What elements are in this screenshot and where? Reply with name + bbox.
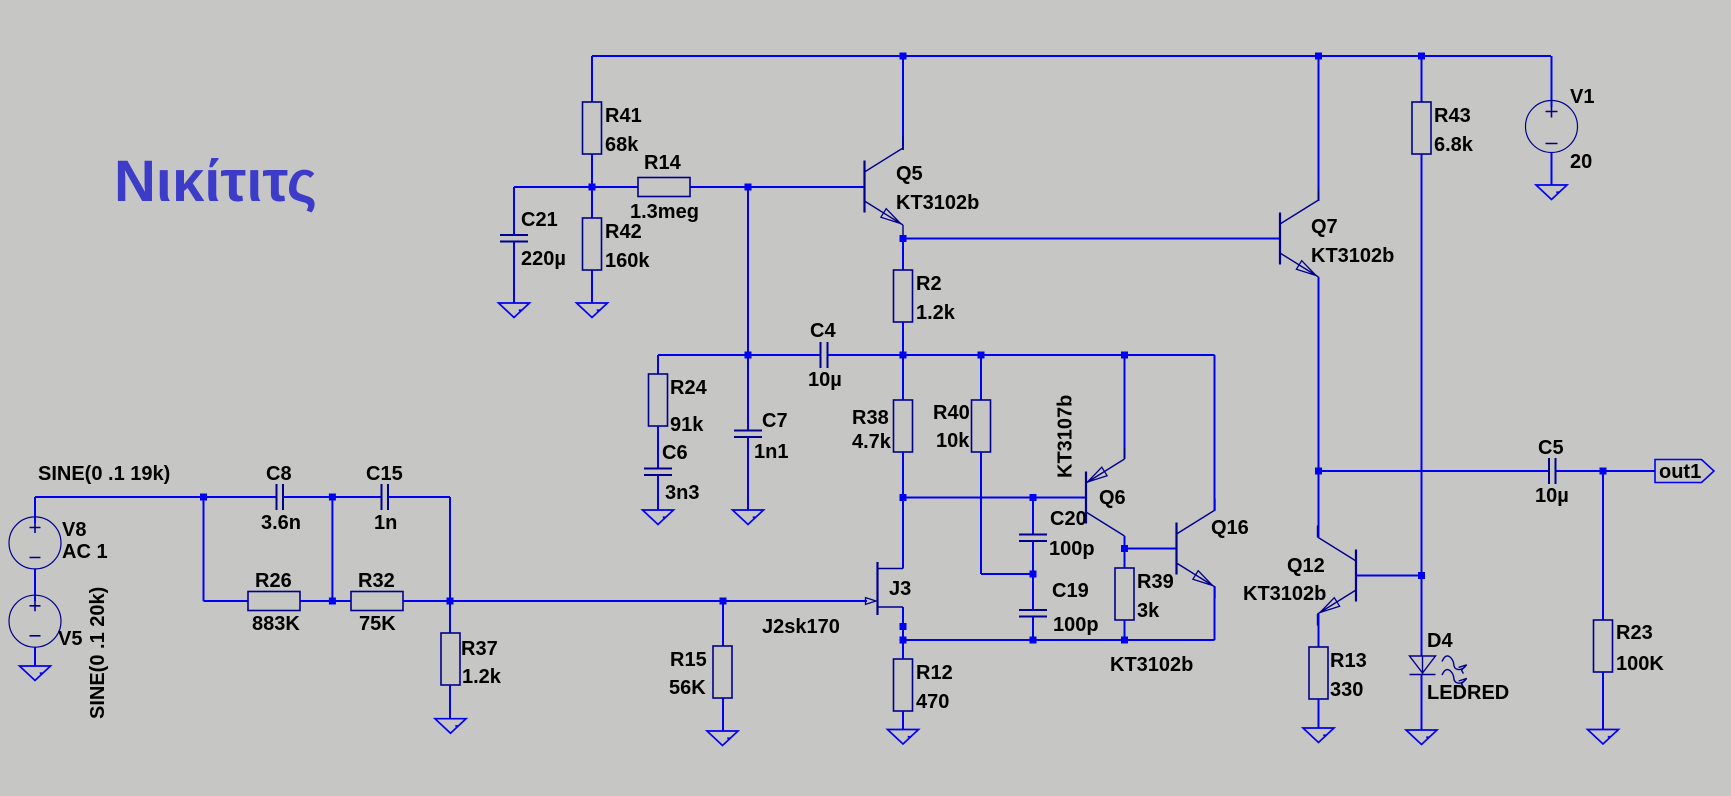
diode D4 [1410,656,1467,687]
wire [1318,471,1320,537]
resistor R14 [638,178,690,197]
svg-text:160k: 160k [605,250,650,272]
svg-text:220µ: 220µ [521,248,566,270]
junction [720,598,727,605]
svg-text:R12: R12 [916,662,953,684]
wire [902,239,904,271]
wire [902,711,904,730]
capacitor C7 [734,431,762,438]
svg-text:R24: R24 [670,377,708,399]
wire [1421,56,1423,102]
transistor Q12 [1318,526,1357,626]
junction [900,235,907,242]
ground [707,731,738,746]
svg-text:91k: 91k [670,414,704,436]
svg-text:KT3107b: KT3107b [1055,395,1077,478]
junction [1030,637,1037,644]
wire [657,475,659,510]
resistor R13 [1309,647,1328,699]
junction [900,53,907,60]
wire [1556,470,1656,472]
wire [283,496,382,498]
wire [1551,56,1553,107]
svg-text:1n: 1n [374,512,397,534]
junction [1315,53,1322,60]
svg-text:100K: 100K [1616,653,1664,675]
wire [592,55,1551,57]
wire [34,569,36,601]
wire [1319,470,1550,472]
capacitor C8 [277,484,284,510]
junction [900,494,907,501]
wire [1214,586,1216,640]
svg-text:Q12: Q12 [1287,555,1325,577]
svg-text:SINE(0 .1 20k): SINE(0 .1 20k) [87,587,109,719]
svg-text:Q16: Q16 [1211,517,1249,539]
wire [747,437,749,510]
svg-text:100p: 100p [1053,614,1099,636]
ground [435,719,466,734]
ground [20,666,51,681]
transistor Q16 [1177,499,1216,599]
resistor R24 [649,374,668,426]
svg-text:C21: C21 [521,209,558,231]
svg-text:R13: R13 [1330,650,1367,672]
svg-text:AC 1: AC 1 [62,541,108,563]
wire [1551,153,1553,186]
transistor Q5 [865,137,904,237]
svg-text:R37: R37 [461,638,498,660]
svg-text:75K: 75K [359,613,396,635]
wire [902,355,904,400]
svg-text:SINE(0 .1 19k): SINE(0 .1 19k) [38,463,170,485]
ground [1406,730,1437,745]
svg-text:R38: R38 [852,407,889,429]
svg-text:3k: 3k [1137,600,1160,622]
wire [903,238,1280,240]
wire [903,497,1086,499]
wire [981,573,1033,575]
wire [1421,154,1423,656]
wire [513,242,515,304]
junction [200,494,207,501]
svg-text:C19: C19 [1052,580,1089,602]
wire [1032,617,1034,641]
wire [449,497,451,601]
wire [1124,536,1126,549]
wire [1602,471,1604,620]
svg-text:C6: C6 [662,442,688,464]
resistor R2 [894,270,913,322]
wire [903,639,1215,641]
svg-text:R2: R2 [916,273,942,295]
wire [980,355,982,400]
wire [1421,675,1423,731]
resistor R42 [583,218,602,270]
wire [722,698,724,731]
transistor Q7 [1280,189,1319,289]
resistor R12 [894,659,913,711]
svg-text:R32: R32 [358,570,395,592]
svg-text:C5: C5 [1538,437,1564,459]
svg-text:330: 330 [1330,679,1363,701]
wire [657,426,659,469]
svg-text:1.3meg: 1.3meg [630,201,699,223]
svg-text:R14: R14 [644,152,682,174]
junction [978,352,985,359]
svg-text:Q5: Q5 [896,163,923,185]
transistor Q6 [1086,448,1125,548]
ground [1303,728,1334,743]
junction [1600,468,1607,475]
svg-text:1n1: 1n1 [754,441,788,463]
wire [1318,56,1320,201]
wire [1124,549,1126,569]
wire [1318,699,1320,728]
wire [902,322,904,355]
svg-text:C8: C8 [266,463,292,485]
wire [747,187,749,355]
wire [591,270,593,303]
svg-text:6.8k: 6.8k [1434,134,1474,156]
wire [388,496,450,498]
wire [980,452,982,574]
junction [1121,545,1128,552]
wire [1125,548,1177,550]
wire [35,496,277,498]
resistor R39 [1115,568,1134,620]
wire [747,355,749,431]
wire [449,685,451,719]
junction [900,623,907,630]
resistor R23 [1594,620,1613,672]
junction [1030,571,1037,578]
junction [1121,637,1128,644]
svg-text:10µ: 10µ [1535,485,1569,507]
resistor R43 [1412,102,1431,154]
svg-text:Νικίτιτς: Νικίτιτς [114,149,317,214]
wire [658,354,821,356]
ground [888,730,919,745]
resistor R26 [248,592,300,611]
capacitor C20 [1019,535,1047,542]
svg-text:1.2k: 1.2k [916,302,956,324]
ground [643,510,674,525]
svg-text:KT3102b: KT3102b [1243,583,1326,605]
transistor J3 [878,562,904,615]
wire [1032,498,1034,535]
svg-text:J3: J3 [889,578,911,600]
wire [1318,614,1320,647]
source V8 [9,517,61,569]
ground [1588,730,1619,745]
svg-text:R43: R43 [1434,105,1471,127]
svg-text:R15: R15 [670,649,707,671]
wire [657,355,659,374]
resistor R37 [441,633,460,685]
junction [745,352,752,359]
junction [1418,53,1425,60]
svg-text:C7: C7 [762,410,788,432]
ground [733,510,764,525]
wire [828,354,1215,356]
svg-text:R40: R40 [933,402,970,424]
wire [902,452,904,498]
wire [722,601,724,646]
capacitor C6 [644,469,672,476]
svg-text:R26: R26 [255,570,292,592]
wire [403,600,867,602]
junction [1418,572,1425,579]
svg-text:56K: 56K [669,677,706,699]
svg-text:C20: C20 [1050,508,1087,530]
wire [513,187,515,235]
flag out1 [1655,460,1714,483]
wire [902,56,904,150]
wire [591,154,593,187]
svg-text:J2sk170: J2sk170 [762,616,840,638]
wire [1318,277,1320,471]
svg-text:KT3102b: KT3102b [1110,654,1193,676]
capacitor C15 [382,484,389,510]
svg-text:KT3102b: KT3102b [1311,245,1394,267]
svg-text:V8: V8 [62,519,86,541]
wire [902,640,904,659]
ground [577,303,608,318]
svg-text:R23: R23 [1616,622,1653,644]
svg-text:R42: R42 [605,221,642,243]
wire [34,497,36,523]
junction [329,598,336,605]
svg-text:C4: C4 [810,320,836,342]
capacitor C5 [1549,458,1556,484]
svg-text:10k: 10k [936,430,970,452]
resistor R32 [351,592,403,611]
resistor R15 [713,646,732,698]
ground [1536,185,1567,200]
wire [514,186,638,188]
wire [1602,672,1604,730]
svg-text:10µ: 10µ [808,369,842,391]
svg-text:4.7k: 4.7k [852,431,892,453]
wire [300,600,351,602]
source V1 [1526,101,1578,153]
ground [499,303,530,318]
capacitor C4 [821,342,828,368]
junction [900,637,907,644]
capacitor C19 [1019,610,1047,617]
svg-text:Q6: Q6 [1099,487,1126,509]
svg-text:C15: C15 [366,463,403,485]
svg-text:LEDRED: LEDRED [1427,682,1509,704]
resistor R40 [972,400,991,452]
wire [34,647,36,666]
svg-text:V1: V1 [1570,86,1594,108]
svg-text:R41: R41 [605,105,642,127]
svg-text:R39: R39 [1137,571,1174,593]
wire [690,186,865,188]
wire [1124,355,1126,459]
wire [1032,541,1034,610]
wire [1356,575,1422,577]
junction [745,184,752,191]
svg-text:100p: 100p [1049,538,1095,560]
junction [1030,494,1037,501]
junction [329,494,336,501]
resistor R38 [894,400,913,452]
wire [204,600,249,602]
wire [331,497,333,601]
wire [1214,355,1216,511]
wire [591,187,593,218]
svg-text:KT3102b: KT3102b [896,192,979,214]
svg-text:V5: V5 [58,628,82,650]
wire [902,498,904,569]
junction [900,352,907,359]
wire [449,601,451,633]
wire [591,56,593,102]
svg-text:1.2k: 1.2k [462,666,502,688]
svg-text:Q7: Q7 [1311,216,1338,238]
junction [1121,352,1128,359]
source V5 [9,595,61,647]
wire [1124,620,1126,640]
svg-text:out1: out1 [1659,461,1701,483]
capacitor C21 [500,235,528,242]
wire [203,497,205,601]
svg-text:883K: 883K [252,613,300,635]
junction [1315,468,1322,475]
resistor R41 [583,102,602,154]
wire [902,607,904,640]
junction [589,184,596,191]
svg-text:D4: D4 [1427,630,1453,652]
svg-text:470: 470 [916,691,949,713]
svg-text:3n3: 3n3 [665,482,699,504]
svg-text:20: 20 [1570,151,1592,173]
svg-text:68k: 68k [605,134,639,156]
junction [447,598,454,605]
svg-text:3.6n: 3.6n [261,512,301,534]
